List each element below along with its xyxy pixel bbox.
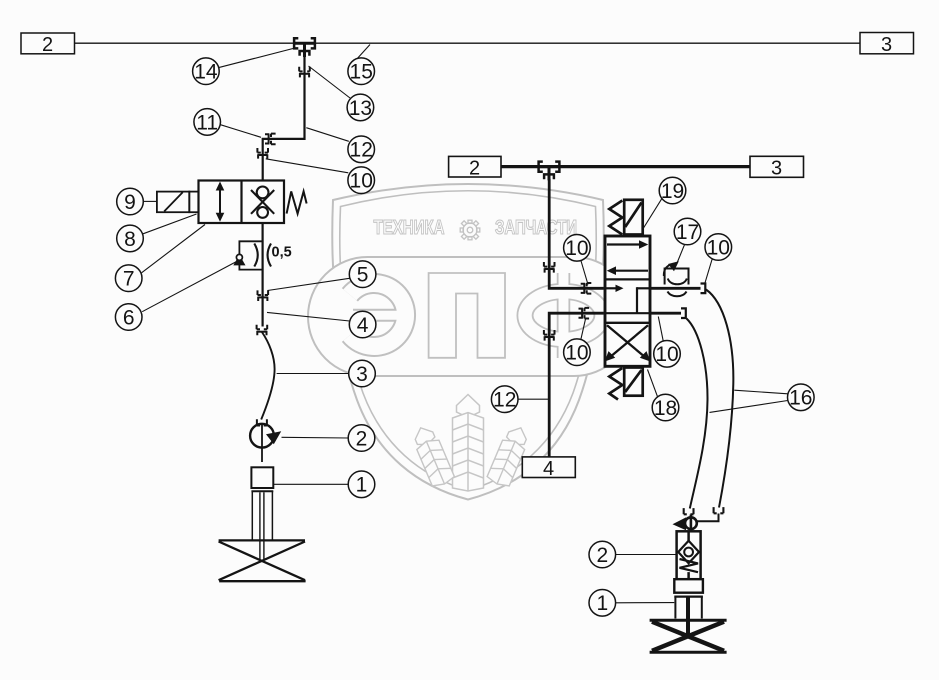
bracket fitting upper right <box>701 284 706 294</box>
callout 2 right <box>589 541 677 568</box>
hose-end fitting left <box>684 508 694 514</box>
callout 10 lower-right <box>654 317 681 368</box>
watermark shield outer outline <box>332 184 603 500</box>
solenoid valve 8 right-cell crossed check symbol <box>251 187 274 218</box>
directional valve 19/18 body <box>605 236 650 366</box>
svg-text:6: 6 <box>123 306 135 329</box>
solenoid coil 19 above valve <box>624 200 643 235</box>
svg-text:13: 13 <box>349 97 372 120</box>
svg-text:14: 14 <box>194 61 218 84</box>
svg-text:4: 4 <box>357 314 369 337</box>
port box 2 mid <box>449 156 501 179</box>
cylinder 1 left <box>251 467 273 559</box>
callout 9 <box>117 188 157 215</box>
callout 10 top-left <box>266 159 375 194</box>
svg-text:1: 1 <box>356 474 368 497</box>
svg-text:18: 18 <box>654 397 677 420</box>
callout 12 mid <box>491 386 549 413</box>
svg-text:10: 10 <box>565 237 588 260</box>
svg-text:17: 17 <box>676 221 699 244</box>
hose-end fitting right <box>714 507 724 513</box>
throttle 5 bypass loop <box>239 241 262 269</box>
svg-text:10: 10 <box>565 342 588 365</box>
callout 17 <box>674 218 701 266</box>
cylinder 1 right <box>674 579 703 637</box>
lock valve block 2 right <box>677 531 701 579</box>
watermark wheat left ear <box>410 423 456 489</box>
watermark gear icon <box>460 220 480 240</box>
callout 12 left <box>306 128 374 163</box>
wire top boom line 2-3 <box>75 42 861 44</box>
svg-text:8: 8 <box>124 228 136 251</box>
union fitting 10b on feed elbow <box>581 283 592 294</box>
callout 11 <box>194 109 261 138</box>
svg-text:12: 12 <box>493 389 516 412</box>
callout 13 <box>309 66 374 121</box>
svg-text:4: 4 <box>543 458 554 480</box>
port box 4 tank <box>522 457 575 480</box>
callout 1 right <box>589 590 674 617</box>
union fitting 4 top of hose <box>257 325 268 336</box>
callout 18 <box>648 370 679 421</box>
svg-text:9: 9 <box>124 191 136 214</box>
union fitting 5 below throttle <box>258 290 269 301</box>
wire 12 feed: tee down, elbow right into valve <box>549 179 604 288</box>
callout 2 left <box>282 425 375 452</box>
tee fitting on mid line <box>539 162 560 181</box>
svg-text:10: 10 <box>707 236 730 259</box>
throttle 5 venturi arcs <box>254 244 271 267</box>
wire throttle to hose <box>262 292 264 327</box>
callout 4 <box>267 311 376 338</box>
watermark stadium band <box>308 257 634 376</box>
watermark wheat center ear <box>453 395 484 492</box>
svg-text:5: 5 <box>357 264 369 287</box>
hose 16 inner <box>687 319 708 509</box>
svg-text:3: 3 <box>881 34 892 56</box>
scissor mechanism left <box>219 540 306 581</box>
watermark wheat right ear <box>486 423 532 489</box>
svg-text:1: 1 <box>596 592 608 615</box>
valve mid cell ports <box>605 285 650 314</box>
callout 10 top-right <box>705 234 732 285</box>
spring above valve <box>609 201 622 235</box>
hose-end fitting at swivel <box>257 419 267 425</box>
wire return: valve left port to tank box 4 <box>549 313 604 457</box>
union fitting on return drop <box>544 330 555 341</box>
callout 3 <box>277 360 376 387</box>
svg-text:19: 19 <box>661 180 684 203</box>
hose 16 outer <box>706 290 733 508</box>
svg-text:2: 2 <box>596 544 608 567</box>
svg-text:10: 10 <box>655 343 678 366</box>
svg-text:3: 3 <box>356 363 368 386</box>
callout 5 <box>268 261 376 291</box>
svg-text:10: 10 <box>350 170 373 193</box>
solenoid valve 8 cell divider <box>240 181 242 224</box>
union fitting 10c on return elbow <box>579 308 590 319</box>
solenoid coil 9 of valve 8 <box>157 192 199 213</box>
union fitting 11 on horizontal run <box>265 134 276 145</box>
wire valve to right upper port <box>650 287 701 290</box>
svg-text:2: 2 <box>42 34 53 56</box>
wire drop from tee 14 <box>263 56 305 181</box>
port box 3 mid <box>750 156 804 179</box>
wire right fitting down and across <box>697 514 719 522</box>
spring of valve 8 <box>287 191 307 213</box>
valve cell divider upper <box>605 278 650 280</box>
svg-text:ТЕХНИКА: ТЕХНИКА <box>374 217 445 239</box>
swivel coupling 17 symbol <box>664 261 689 296</box>
valve top cell parallel arrows <box>607 240 649 275</box>
callout 7 <box>115 225 205 292</box>
svg-text:ЗАПЧАСТИ: ЗАПЧАСТИ <box>495 217 577 239</box>
scissor mechanism right <box>650 620 727 652</box>
callout 14 <box>193 49 293 85</box>
wire valve to right lower port <box>650 312 681 315</box>
callout 10 lower-left <box>564 319 591 366</box>
watermark EPF letters <box>350 273 602 358</box>
port box 3 top-right <box>860 33 914 56</box>
callout 8 <box>117 214 197 252</box>
hose 3 flexible curve <box>261 332 274 420</box>
svg-text:2: 2 <box>469 157 480 179</box>
tee fitting 14 on top line <box>294 38 315 57</box>
svg-text:12: 12 <box>350 139 373 162</box>
check valve 6 on bypass <box>233 254 245 265</box>
union fitting 10a below elbow <box>257 148 268 159</box>
callout 16 with two leaders <box>710 384 815 412</box>
svg-text:0,5: 0,5 <box>272 245 292 261</box>
union fitting 13 <box>299 67 310 78</box>
solenoid valve 8 left-cell double arrow <box>216 182 225 222</box>
swivel joint right cylinder <box>673 515 697 532</box>
valve cell divider lower <box>605 322 650 324</box>
svg-text:2: 2 <box>356 427 368 450</box>
bracket fitting lower right <box>681 308 686 318</box>
svg-text:16: 16 <box>789 387 812 410</box>
spring below valve <box>609 368 622 400</box>
callout 19 <box>644 177 686 228</box>
union fitting on wire 12 upper <box>544 262 555 273</box>
callout 1 left <box>274 471 375 498</box>
port box 2 top-left <box>21 33 75 56</box>
svg-text:15: 15 <box>350 61 373 84</box>
svg-text:11: 11 <box>196 111 218 134</box>
WATERMARK <box>308 184 634 500</box>
callout 10 left of valve <box>564 235 591 285</box>
svg-text:7: 7 <box>123 268 135 291</box>
callout 15 <box>348 45 375 85</box>
watermark shield inner outline <box>340 191 596 491</box>
svg-text:3: 3 <box>771 158 782 180</box>
solenoid valve 8 body <box>199 181 285 224</box>
valve bottom cell crossed arrows <box>605 325 651 361</box>
callout 6 <box>115 261 237 330</box>
swivel joint 2 left <box>250 424 281 462</box>
wire valve 8 to throttle <box>262 223 264 292</box>
solenoid coil 18 below valve <box>624 368 643 396</box>
wire mid boom line 2-3 thick <box>501 165 750 168</box>
